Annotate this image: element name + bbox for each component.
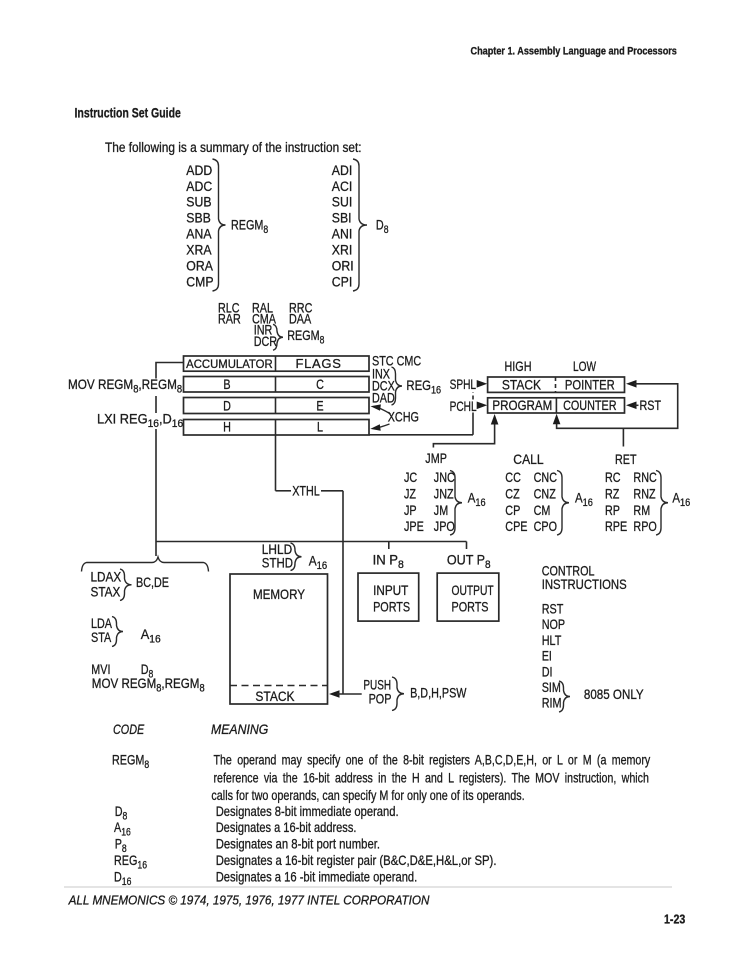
svg-text:C: C [316, 377, 324, 392]
ret stub [622, 428, 624, 446]
svg-text:ALL MNEMONICS © 1974, 1975, 19: ALL MNEMONICS © 1974, 1975, 1976, 1977 I… [68, 893, 430, 908]
faint rule [64, 886, 672, 888]
svg-text:RST: RST [542, 601, 564, 616]
svg-text:RAR: RAR [218, 311, 241, 326]
brace LHLD STHD [291, 543, 302, 571]
wire xthl down [342, 491, 344, 694]
xchg arrow to DE [374, 406, 391, 414]
svg-text:CPO: CPO [534, 519, 557, 534]
wire divider down [275, 435, 277, 491]
svg-text:PROGRAM: PROGRAM [492, 398, 552, 413]
divider B C [275, 377, 277, 393]
svg-text:JM: JM [434, 503, 448, 518]
register box B C [184, 377, 370, 393]
divider D E [275, 398, 277, 414]
svg-text:ADI: ADI [332, 162, 352, 178]
svg-text:XCHG: XCHG [388, 409, 419, 424]
svg-text:MEANING: MEANING [211, 721, 268, 737]
svg-text:JZ: JZ [404, 486, 416, 501]
jmp up arrowhead [491, 414, 499, 425]
svg-text:STACK: STACK [255, 688, 295, 704]
wire xthl right seg [321, 490, 343, 492]
svg-text:RP: RP [605, 503, 620, 518]
svg-text:NOP: NOP [542, 617, 565, 632]
brace jump A16 [450, 471, 462, 536]
divider program counter [555, 398, 557, 413]
pchl arrowhead [477, 402, 488, 410]
svg-text:RET: RET [615, 452, 637, 467]
svg-text:RPE: RPE [605, 519, 627, 534]
svg-text:RC: RC [605, 470, 621, 485]
wire ret loop [557, 384, 678, 429]
svg-text:RNZ: RNZ [633, 486, 656, 501]
brace REG16 group [392, 367, 403, 405]
svg-text:POINTER: POINTER [565, 378, 615, 393]
svg-text:E: E [316, 398, 323, 413]
svg-text:SIM: SIM [542, 680, 561, 695]
push pop arrowhead [329, 690, 340, 698]
svg-text:ADD: ADD [186, 162, 212, 178]
pointer arrowhead [626, 380, 637, 388]
svg-text:OUTPUT: OUTPUT [452, 583, 495, 599]
divider stack pointer dashed [555, 377, 557, 392]
push pop arrow line [337, 693, 362, 695]
svg-text:Designates an 8-bit port numbe: Designates an 8-bit port number. [216, 837, 380, 852]
svg-text:1-23: 1-23 [664, 913, 686, 927]
svg-text:The operand may specify one of: The operand may specify one of the 8-bit… [214, 752, 652, 768]
svg-text:JNC: JNC [434, 470, 455, 485]
svg-text:SBI: SBI [332, 210, 352, 226]
wire HL bottom extension [369, 434, 473, 436]
svg-text:INSTRUCTIONS: INSTRUCTIONS [542, 577, 627, 592]
svg-text:CPI: CPI [332, 274, 352, 290]
svg-text:PORTS: PORTS [373, 599, 410, 614]
wire xthl left seg [276, 490, 292, 492]
svg-text:RIM: RIM [542, 696, 562, 711]
svg-text:Designates a 16-bit register p: Designates a 16-bit register pair (B&C,D… [216, 853, 497, 868]
svg-text:Designates 8-bit immediate ope: Designates 8-bit immediate operand. [216, 804, 399, 819]
svg-text:LOW: LOW [573, 358, 597, 374]
stack dashed divider [230, 685, 328, 687]
brace D8 group [353, 159, 367, 291]
brace call A16 [557, 471, 569, 536]
svg-text:ANA: ANA [186, 226, 212, 242]
svg-text:B,D,H,PSW: B,D,H,PSW [410, 686, 467, 701]
svg-text:HIGH: HIGH [505, 359, 532, 374]
svg-text:CODE: CODE [113, 722, 145, 737]
svg-text:STAX: STAX [91, 585, 121, 600]
memory box [230, 574, 328, 704]
wire HL up to PCHL [472, 413, 474, 435]
svg-text:ACCUMULATOR: ACCUMULATOR [186, 357, 272, 370]
svg-text:ACI: ACI [332, 178, 352, 194]
svg-text:LHLD: LHLD [262, 541, 292, 557]
svg-text:CPE: CPE [505, 519, 527, 534]
svg-text:SUI: SUI [332, 194, 352, 210]
wire left dash [155, 396, 157, 413]
svg-text:B: B [223, 377, 230, 392]
brace PUSH POP [392, 677, 404, 711]
svg-text:JNZ: JNZ [434, 486, 454, 501]
svg-text:LDAX: LDAX [91, 570, 122, 585]
stub OUT [466, 542, 468, 550]
svg-text:RZ: RZ [605, 486, 620, 501]
svg-text:ORI: ORI [332, 258, 354, 274]
brace REGM8 group [213, 159, 226, 291]
svg-text:reference via the 16-bit addre: reference via the 16-bit address in the … [214, 770, 649, 786]
svg-text:PORTS: PORTS [452, 599, 489, 614]
svg-text:DAD: DAD [372, 390, 395, 405]
svg-text:INPUT: INPUT [373, 583, 408, 598]
svg-text:JPO: JPO [434, 519, 455, 534]
svg-text:D: D [223, 398, 231, 413]
svg-text:Designates a 16-bit address.: Designates a 16-bit address. [216, 820, 357, 835]
rst arrowhead [626, 402, 637, 410]
svg-text:CNZ: CNZ [534, 486, 557, 501]
svg-text:DI: DI [542, 664, 553, 679]
svg-text:PCHL: PCHL [450, 398, 477, 414]
brace over LDAX group [82, 557, 209, 572]
svg-text:8085 ONLY: 8085 ONLY [584, 687, 644, 702]
svg-text:BC,DE: BC,DE [136, 575, 169, 590]
svg-text:JPE: JPE [404, 519, 424, 534]
brace ret A16 [656, 471, 668, 536]
svg-text:HLT: HLT [542, 633, 562, 648]
brace INR DCR [273, 324, 283, 350]
svg-text:RST: RST [640, 398, 662, 413]
svg-text:CM: CM [534, 503, 551, 518]
svg-text:RPO: RPO [633, 519, 656, 534]
brace 8085 only [559, 681, 570, 712]
xchg arrowhead HL [370, 424, 380, 430]
svg-text:XRI: XRI [332, 242, 352, 258]
wire dash above PCHL [472, 392, 474, 400]
svg-text:Chapter 1. Assembly Language: Chapter 1. Assembly Language and Process… [471, 46, 678, 58]
svg-text:STACK: STACK [502, 377, 542, 393]
svg-text:calls for two operands, can sp: calls for two operands, can specify M fo… [211, 788, 524, 803]
register box H L [184, 420, 370, 436]
xchg arrowhead DE [371, 404, 381, 410]
svg-text:XTHL: XTHL [292, 483, 320, 498]
stack pointer box [488, 377, 625, 392]
svg-text:STA: STA [91, 630, 112, 645]
svg-text:SBB: SBB [186, 210, 211, 226]
svg-text:JC: JC [404, 470, 417, 485]
xchg arrow to HL [374, 424, 390, 429]
svg-text:H: H [223, 419, 231, 434]
svg-text:MEMORY: MEMORY [253, 587, 306, 602]
divider H L [275, 420, 277, 436]
output ports box [437, 573, 499, 621]
brace LDA STA [112, 617, 123, 647]
svg-text:ADC: ADC [186, 178, 212, 194]
svg-text:FLAGS: FLAGS [295, 356, 341, 371]
svg-text:DCR: DCR [254, 334, 278, 349]
svg-text:XRA: XRA [186, 242, 212, 258]
counter up arrowhead [553, 414, 561, 425]
input ports box [358, 573, 419, 621]
stub IN [388, 542, 390, 550]
svg-text:JP: JP [404, 503, 417, 518]
svg-text:ANI: ANI [332, 226, 352, 242]
svg-text:CC: CC [505, 470, 521, 485]
wire left down [155, 429, 157, 556]
svg-text:CP: CP [505, 503, 520, 518]
sphl arrowhead [477, 380, 488, 388]
svg-text:CNC: CNC [534, 470, 558, 485]
brace LDAX STAX [120, 569, 132, 601]
svg-text:RNC: RNC [633, 470, 657, 485]
register box accumulator flags [184, 356, 370, 371]
svg-text:EI: EI [542, 648, 552, 663]
svg-text:DAA: DAA [289, 311, 312, 326]
svg-text:CALL: CALL [513, 451, 543, 467]
svg-text:POP: POP [369, 691, 392, 706]
divider accumulator flags [275, 356, 277, 371]
svg-text:SPHL: SPHL [450, 376, 477, 392]
svg-text:STHD: STHD [262, 556, 293, 571]
svg-text:Designates a 16 -bit immediate: Designates a 16 -bit immediate operand. [216, 870, 418, 885]
svg-text:SUB: SUB [186, 194, 211, 210]
svg-text:MVI: MVI [91, 662, 110, 677]
wire jmp [433, 423, 494, 448]
svg-text:ORA: ORA [186, 258, 213, 274]
rst arrow line [634, 404, 639, 406]
register box D E [184, 398, 370, 414]
svg-text:L: L [317, 419, 323, 434]
wire accumulator to left [156, 363, 184, 379]
svg-text:RM: RM [633, 503, 650, 518]
wire main horizontal [156, 541, 467, 543]
svg-text:COUNTER: COUNTER [563, 398, 617, 413]
svg-text:Instruction Set Guide: Instruction Set Guide [75, 105, 182, 121]
svg-text:CZ: CZ [505, 486, 520, 501]
svg-text:JMP: JMP [425, 451, 447, 466]
svg-text:The following is a summary of: The following is a summary of the instru… [105, 139, 362, 155]
svg-text:CMP: CMP [186, 274, 213, 290]
program counter box [488, 398, 625, 413]
